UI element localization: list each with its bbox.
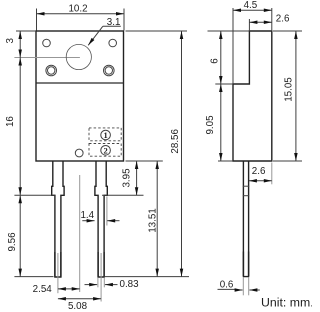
pin 3 tip (97, 252, 104, 277)
mounting hole (66, 44, 91, 69)
svg-text:4.5: 4.5 (244, 0, 258, 11)
dimension 9.56 (7, 195, 55, 276)
dimension 16 (5, 58, 22, 196)
svg-text:2.6: 2.6 (276, 14, 290, 25)
side view outline (233, 31, 272, 161)
svg-text:16: 16 (5, 116, 16, 127)
svg-text:15.05: 15.05 (284, 77, 295, 102)
dimension 3.1 leader (87, 17, 121, 46)
svg-text:3: 3 (5, 38, 16, 44)
svg-text:1: 1 (103, 130, 107, 140)
dimension 2.6 lower (249, 163, 272, 185)
dimension 0.6 (218, 278, 260, 296)
svg-text:9.56: 9.56 (7, 232, 18, 252)
side pin crimps (243, 185, 249, 187)
dimension 5.08 (58, 297, 101, 312)
extension drops pins (57, 253, 59, 293)
package vertical centerline (79, 175, 81, 292)
dimension 15.05 (273, 31, 302, 161)
dimension 0.83 (85, 279, 140, 290)
hole centerline (14, 57, 80, 59)
svg-text:Unit: mm.: Unit: mm. (261, 296, 312, 310)
pin 3 right (95, 161, 107, 277)
dimension 10.2 (37, 3, 125, 30)
circled number 2 (101, 145, 111, 155)
svg-text:9.05: 9.05 (205, 115, 216, 135)
side pin tip (243, 252, 249, 277)
dimension 2.6 top (249, 14, 290, 31)
bottom circle (75, 149, 83, 157)
svg-text:13.51: 13.51 (147, 208, 158, 233)
tab separation line (36, 82, 124, 84)
svg-text:5.08: 5.08 (68, 301, 88, 312)
dimension 3.95 (102, 161, 144, 195)
small hole left (43, 39, 51, 47)
dimension 13.51 (126, 161, 163, 277)
boss circle right (104, 65, 115, 76)
small hole right (109, 39, 117, 47)
svg-text:2.6: 2.6 (252, 166, 266, 177)
dimension 1.4 (80, 197, 119, 226)
dimension 28.56 (104, 31, 189, 277)
svg-text:0.83: 0.83 (120, 279, 140, 290)
marking area 1 dashed box (89, 128, 121, 141)
dimension 3 (5, 31, 36, 58)
front view package outline (36, 31, 124, 161)
svg-text:10.2: 10.2 (68, 3, 87, 14)
pin 1 tip (54, 252, 61, 277)
svg-text:28.56: 28.56 (170, 128, 181, 153)
dimension 6 (208, 31, 250, 84)
side pin (243, 161, 248, 277)
pin 1 left (52, 161, 64, 277)
dimension 2.54 (33, 284, 80, 295)
circled number 1 (101, 130, 111, 140)
dimension 4.5 (233, 0, 272, 84)
svg-text:6: 6 (210, 58, 221, 64)
svg-text:2: 2 (103, 145, 107, 155)
boss circle left (46, 65, 57, 76)
marking area 2 dashed box (89, 144, 121, 157)
svg-text:3.95: 3.95 (122, 168, 133, 188)
svg-text:2.54: 2.54 (33, 284, 53, 295)
dimension 9.05 (205, 84, 233, 161)
